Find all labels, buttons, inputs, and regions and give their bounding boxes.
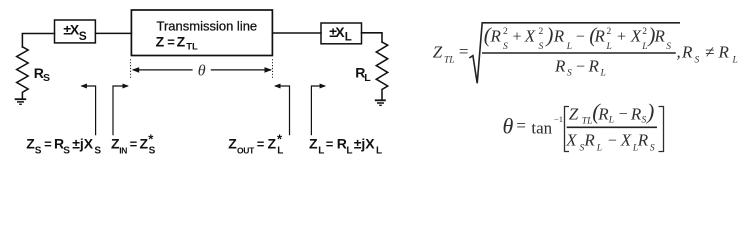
svg-text:R: R bbox=[554, 57, 566, 76]
svg-text:L: L bbox=[641, 42, 647, 52]
bracket [ bbox=[565, 107, 570, 152]
wire bbox=[272, 32, 321, 34]
svg-text:L: L bbox=[608, 116, 614, 126]
svg-text:Z: Z bbox=[228, 136, 237, 152]
svg-text:=: = bbox=[326, 137, 334, 152]
svg-text:S: S bbox=[149, 146, 156, 157]
svg-text:S: S bbox=[43, 72, 50, 84]
ground (left) bbox=[15, 99, 27, 104]
svg-text:−: − bbox=[619, 106, 628, 123]
dimension arrow theta bbox=[132, 67, 272, 73]
svg-text:S: S bbox=[539, 42, 544, 52]
bracket ] bbox=[659, 107, 664, 152]
resistor RL bbox=[376, 42, 387, 100]
svg-text:S: S bbox=[666, 42, 671, 52]
svg-text:TL: TL bbox=[582, 117, 593, 127]
svg-text:S: S bbox=[94, 146, 101, 157]
svg-text:2: 2 bbox=[539, 27, 544, 37]
svg-text:X: X bbox=[524, 27, 536, 46]
svg-text:L: L bbox=[346, 146, 352, 157]
svg-text:R: R bbox=[637, 131, 649, 150]
radical bbox=[469, 23, 680, 84]
svg-text:L: L bbox=[600, 69, 606, 79]
svg-text:S: S bbox=[650, 143, 655, 153]
svg-text:R: R bbox=[597, 104, 609, 123]
svg-text:TL: TL bbox=[444, 56, 455, 66]
wire bbox=[95, 32, 131, 34]
svg-text:Z: Z bbox=[177, 33, 186, 49]
transmission line box bbox=[131, 10, 272, 56]
arrow ZIN (looking right) bbox=[113, 84, 129, 136]
svg-text:R: R bbox=[594, 27, 606, 46]
svg-text:θ: θ bbox=[198, 62, 206, 79]
svg-text:Z: Z bbox=[433, 43, 443, 62]
svg-text:tan: tan bbox=[531, 119, 552, 138]
svg-text:±jX: ±jX bbox=[72, 136, 94, 152]
svg-text:R: R bbox=[583, 131, 595, 150]
svg-text:L: L bbox=[345, 31, 352, 43]
svg-text:=: = bbox=[459, 42, 469, 61]
svg-text:2: 2 bbox=[642, 27, 647, 37]
svg-text:≠: ≠ bbox=[705, 43, 714, 62]
extension line left bbox=[130, 59, 132, 78]
svg-text:L: L bbox=[566, 42, 572, 52]
svg-text:R: R bbox=[630, 104, 642, 123]
svg-text:S: S bbox=[503, 42, 508, 52]
svg-text:): ) bbox=[645, 99, 654, 124]
svg-text:Z: Z bbox=[569, 104, 579, 123]
label ZIN = ZS* bbox=[111, 132, 156, 157]
equation ZTL bbox=[433, 23, 738, 84]
svg-text:L: L bbox=[364, 72, 371, 84]
reactance box XS bbox=[55, 20, 96, 43]
arrow ZOUT (looking left) bbox=[274, 84, 290, 136]
svg-text:2: 2 bbox=[607, 27, 612, 37]
svg-text:Z: Z bbox=[309, 136, 318, 152]
label ZS = RS ±jXS bbox=[26, 136, 101, 157]
svg-text:=: = bbox=[257, 137, 265, 152]
svg-text:S: S bbox=[642, 116, 647, 126]
svg-text:θ: θ bbox=[503, 114, 514, 139]
label ZOUT = ZL* bbox=[228, 132, 283, 157]
label ZL = RL ±jXL bbox=[309, 136, 382, 157]
svg-text:S: S bbox=[35, 146, 42, 157]
svg-text:L: L bbox=[318, 146, 324, 157]
svg-text:X: X bbox=[620, 131, 632, 150]
svg-text:−: − bbox=[576, 29, 585, 46]
svg-text:Z: Z bbox=[156, 33, 165, 49]
svg-text:+: + bbox=[617, 29, 626, 46]
svg-text:Z: Z bbox=[268, 136, 277, 152]
arrow ZL (looking right) bbox=[311, 84, 326, 136]
svg-text:OUT: OUT bbox=[237, 145, 255, 155]
svg-text:+: + bbox=[513, 29, 522, 46]
svg-text:L: L bbox=[606, 42, 612, 52]
svg-text:S: S bbox=[567, 69, 572, 79]
svg-text:2: 2 bbox=[503, 27, 508, 37]
svg-text:L: L bbox=[277, 146, 283, 157]
svg-text:±jX: ±jX bbox=[354, 136, 376, 152]
svg-text:=: = bbox=[167, 34, 175, 49]
wire bbox=[362, 33, 383, 42]
svg-text:Z: Z bbox=[140, 136, 149, 152]
svg-text:=: = bbox=[516, 116, 526, 135]
svg-text:R: R bbox=[654, 27, 666, 46]
svg-text:S: S bbox=[695, 56, 700, 66]
svg-text:R: R bbox=[681, 43, 693, 62]
svg-text:,: , bbox=[677, 43, 681, 62]
svg-text:L: L bbox=[376, 146, 382, 157]
svg-text:X: X bbox=[565, 131, 577, 150]
svg-text:R: R bbox=[588, 57, 600, 76]
ground (right) bbox=[375, 100, 386, 105]
svg-text:−1: −1 bbox=[554, 114, 563, 124]
svg-text:−: − bbox=[608, 133, 617, 150]
svg-text:TL: TL bbox=[186, 41, 198, 52]
fraction bar 2 bbox=[567, 126, 657, 128]
svg-text:−: − bbox=[576, 59, 585, 76]
svg-text:L: L bbox=[596, 143, 602, 153]
fraction bar 1 bbox=[482, 52, 676, 54]
svg-text:X: X bbox=[335, 24, 345, 40]
svg-text:IN: IN bbox=[119, 145, 127, 155]
equation theta bbox=[503, 99, 664, 153]
svg-text:R: R bbox=[553, 27, 565, 46]
svg-text:): ) bbox=[545, 23, 553, 47]
svg-text:S: S bbox=[63, 146, 70, 157]
svg-text:Transmission line: Transmission line bbox=[157, 18, 258, 33]
svg-text:=: = bbox=[130, 137, 138, 152]
wire bbox=[22, 34, 54, 48]
svg-text:R: R bbox=[490, 27, 502, 46]
svg-text:R: R bbox=[718, 43, 730, 62]
resistor RS bbox=[17, 47, 28, 99]
reactance box XL bbox=[321, 23, 362, 44]
svg-text:S: S bbox=[79, 29, 87, 43]
svg-text:=: = bbox=[44, 137, 52, 152]
extension line right bbox=[272, 59, 274, 78]
svg-text:X: X bbox=[630, 27, 642, 46]
svg-text:L: L bbox=[732, 56, 738, 66]
arrow ZS (looking left) bbox=[80, 84, 95, 136]
